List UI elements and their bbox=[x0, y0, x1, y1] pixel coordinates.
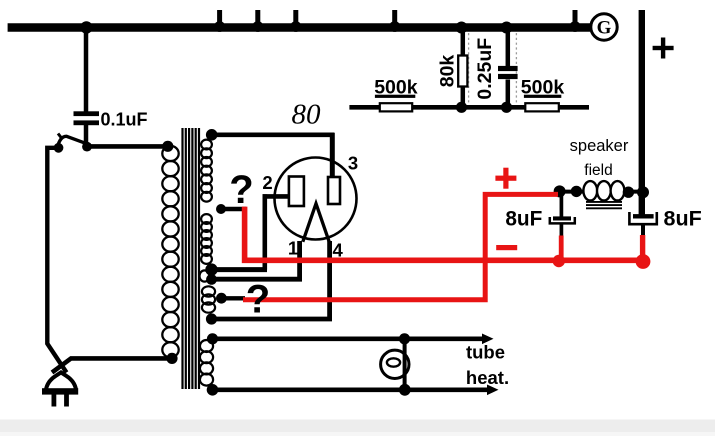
svg-text:field: field bbox=[584, 162, 612, 179]
svg-text:0.1uF: 0.1uF bbox=[100, 110, 147, 130]
svg-text:0.25uF: 0.25uF bbox=[474, 38, 496, 100]
svg-text:4: 4 bbox=[333, 240, 344, 261]
svg-text:?: ? bbox=[229, 168, 253, 212]
svg-text:8uF: 8uF bbox=[664, 207, 702, 231]
svg-text:3: 3 bbox=[348, 153, 358, 174]
svg-text:80k: 80k bbox=[437, 55, 459, 88]
svg-text:1: 1 bbox=[288, 238, 298, 259]
svg-text:tube: tube bbox=[466, 342, 505, 363]
svg-text:G: G bbox=[597, 18, 612, 39]
svg-text:?: ? bbox=[246, 278, 270, 322]
svg-text:80: 80 bbox=[292, 99, 322, 131]
svg-text:speaker: speaker bbox=[570, 137, 629, 155]
svg-text:2: 2 bbox=[262, 172, 272, 193]
svg-text:heat.: heat. bbox=[466, 367, 509, 388]
svg-text:8uF: 8uF bbox=[505, 207, 542, 230]
